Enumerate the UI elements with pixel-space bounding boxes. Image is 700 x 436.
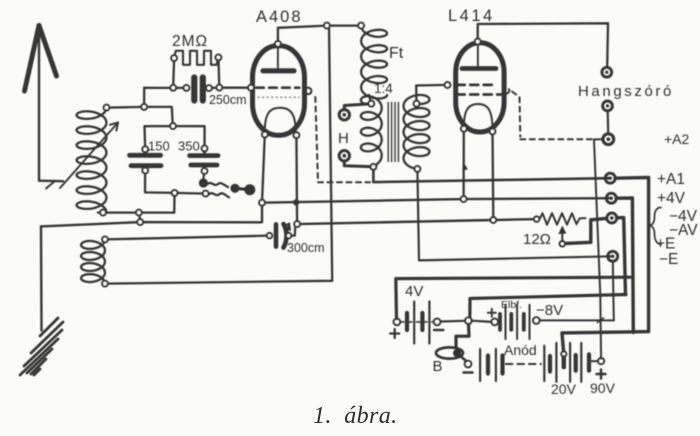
- terminal -E: [608, 251, 618, 261]
- wire ring2 to ring3: [607, 111, 610, 134]
- plus sign 4V: [390, 329, 399, 338]
- terminal +A2 ring3: [603, 134, 614, 145]
- svg-text:4V: 4V: [405, 283, 423, 300]
- A408 anode: [263, 46, 294, 71]
- wire: 2M right leg: [217, 57, 220, 87]
- svg-text:90V: 90V: [590, 380, 616, 396]
- wire to Elbf plus: [472, 321, 492, 322]
- L414 dashed hook to +A2: [504, 89, 594, 139]
- svg-text:−8V: −8V: [536, 302, 563, 319]
- switch contact from 350 cap: [199, 171, 229, 197]
- wire: primary bottom to +A1 rail: [373, 167, 610, 182]
- speaker terminal ring 1: [602, 67, 612, 77]
- lamp B: [436, 347, 466, 361]
- wire V4 +A1 over to 20V tap: [562, 178, 649, 351]
- wire Y202 filament plus rail: [262, 198, 611, 203]
- svg-text:1:4: 1:4: [374, 81, 393, 96]
- brace: [650, 208, 661, 245]
- svg-text:150: 150: [148, 139, 170, 154]
- L414 anode: [462, 43, 496, 68]
- minus sign Anod: [464, 371, 473, 374]
- svg-text:1. ábra.: 1. ábra.: [313, 403, 398, 429]
- svg-text:H: H: [338, 130, 349, 147]
- svg-text:+4V: +4V: [657, 190, 686, 207]
- svg-text:B: B: [433, 358, 443, 375]
- terminal +4V: [606, 193, 616, 203]
- node circles: [100, 23, 565, 287]
- svg-text:250cm: 250cm: [209, 93, 247, 107]
- crossing blob: [293, 199, 299, 205]
- wire: Elbf minus to -E drop: [540, 319, 614, 321]
- tap arrow on coil L1: [46, 123, 118, 189]
- wire: L1 top to caps row: [107, 107, 205, 148]
- plus Elbf: [488, 309, 496, 317]
- svg-text:Anód: Anód: [504, 342, 537, 358]
- wire: secondary bottom to -E: [417, 169, 612, 261]
- shorting plug: [230, 184, 255, 196]
- coil L1 (antenna coil): [77, 108, 107, 213]
- tube A408 envelope: [253, 46, 305, 136]
- wire: ground bus: [41, 203, 262, 227]
- wire V3 +4V down to anode battery line: [616, 198, 633, 333]
- A408 grid dashed: [256, 86, 299, 89]
- ground lead: [40, 226, 43, 330]
- terminal -4V -AV +E: [607, 213, 617, 223]
- svg-text:+A1: +A1: [657, 171, 685, 188]
- coil L3 tickler: [81, 239, 105, 283]
- wire: A408 anode riser to Ft: [278, 26, 361, 44]
- L414 grid dashes row2: [457, 93, 503, 96]
- wire: 4V plus riser and top rail to V3: [396, 277, 630, 318]
- wire V2 -E down to -8V wire: [613, 261, 614, 320]
- transformer core: [388, 103, 398, 162]
- svg-text:−E: −E: [659, 251, 678, 268]
- wire: link coil-bottom row to ground bus: [139, 213, 140, 223]
- wire V1 +A2 down to 90V plus: [594, 140, 601, 359]
- wire: 4V minus rail y295: [470, 295, 626, 321]
- svg-text:20V: 20V: [551, 381, 577, 397]
- transformer primary: [361, 96, 382, 167]
- battery Elbf: [491, 305, 539, 339]
- wire: L414 anode to speaker: [478, 23, 608, 67]
- H jack terminals: [339, 104, 373, 167]
- capacitor 250cm grid condenser: [194, 78, 203, 101]
- L414 filament: [464, 104, 493, 130]
- choke Ft: [361, 26, 387, 99]
- A408 inner dotted line: [258, 96, 299, 98]
- wire: riser y193 row to coil bottom wire: [173, 193, 176, 213]
- capacitor 350: [190, 148, 218, 171]
- wire: secondary top to L414 grid: [416, 85, 447, 104]
- tube L414 envelope: [456, 43, 504, 132]
- svg-text:+A2: +A2: [664, 131, 690, 147]
- grid leak wire y88 junction row: [144, 86, 248, 89]
- transformer secondary: [404, 95, 430, 169]
- wire: L3 bottom to Ft riser: [105, 26, 332, 284]
- node circle 4V minus junction: [465, 317, 472, 324]
- wire: L1 coil bottom row: [98, 211, 174, 213]
- wire Y223 filament minus rail: [297, 219, 536, 224]
- svg-text:300cm: 300cm: [287, 241, 325, 255]
- direction tick on lead: [462, 164, 468, 171]
- antenna: [25, 26, 64, 182]
- wire: riser from grid-leak junction down to coil-top wire: [143, 88, 145, 107]
- wire: L414 left filament lead: [462, 129, 464, 199]
- rheostat 12 ohm: [540, 213, 607, 243]
- battery Anod: [465, 343, 605, 382]
- svg-text:350: 350: [178, 139, 200, 154]
- wire: caps top row left branch down to 150 cap: [145, 126, 174, 149]
- ground symbol: [20, 318, 63, 375]
- terminal +A1: [605, 173, 615, 183]
- speaker terminal ring 2: [603, 101, 613, 111]
- wire: Ft bottom to primary top: [369, 95, 371, 104]
- wire: L414 right filament lead: [491, 131, 494, 220]
- svg-text:L414: L414: [448, 7, 495, 25]
- wire: node to B lamp feeder: [456, 321, 469, 348]
- svg-text:Ft: Ft: [389, 45, 404, 62]
- wire V5 -4V terminal down to 4V minus rail: [617, 218, 626, 295]
- wire: A408 right filament lead: [295, 135, 298, 224]
- variable capacitor 300cm: [276, 224, 295, 248]
- minus sign 4V: [434, 329, 443, 332]
- wire: L3 top to 300cm cap: [105, 236, 266, 240]
- svg-text:A408: A408: [256, 8, 303, 26]
- L414 grid dashes row1: [457, 84, 496, 87]
- wire: A408 left filament lead: [262, 135, 265, 203]
- svg-text:Elbf.: Elbf.: [501, 299, 522, 311]
- wire: below 150 cap to y193 row: [145, 171, 206, 194]
- resistor R1 2M grid leak: [174, 51, 218, 65]
- svg-text:12Ω: 12Ω: [523, 231, 551, 248]
- svg-text:Hangszóró: Hangszóró: [578, 83, 674, 100]
- A408 filament: [265, 108, 296, 132]
- battery 4V: [394, 302, 466, 344]
- crossing tick: [598, 318, 604, 323]
- capacitor 150: [130, 149, 162, 170]
- svg-text:2MΩ: 2MΩ: [172, 33, 208, 50]
- plus sign 90V: [597, 370, 606, 379]
- A408 grid dashed hook and line to transformer: [305, 88, 370, 183]
- wire: 2M left leg: [172, 58, 175, 88]
